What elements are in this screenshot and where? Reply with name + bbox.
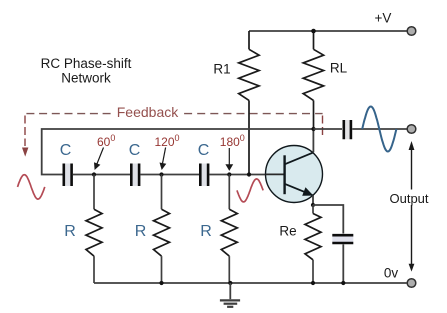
capacitor Cout [344,120,351,139]
feedback arrow [22,148,28,157]
wire C1 to node A [73,174,130,176]
svg-text:R: R [64,223,76,240]
wire bottom rail [94,282,407,284]
svg-text:120: 120 [155,135,175,149]
transistor Q1 [266,146,323,203]
capacitor C2 [131,164,139,187]
svg-text:RC Phase-shift: RC Phase-shift [41,56,132,71]
label RC Phase-shift Network [41,56,132,86]
ground [220,283,240,307]
label 120deg [155,133,180,149]
node rail Re [311,281,315,285]
svg-text:0: 0 [175,133,180,143]
arrow 60deg [94,148,104,171]
node collector [311,127,315,131]
resistor R third [221,175,237,284]
label 180deg [220,133,245,149]
wire collector [312,129,314,152]
resistor R1 [239,31,259,175]
wire cap to output terminal [352,128,407,130]
wire emitter [312,196,314,206]
svg-text:0v: 0v [384,266,399,281]
sine input red [18,175,45,199]
node rail bypass [341,281,345,285]
node RL top [311,29,316,34]
wire emitter to bypass cap [313,205,343,234]
node C 180deg [227,172,231,176]
svg-text:+V: +V [375,11,392,26]
svg-text:R1: R1 [213,62,230,77]
svg-text:RL: RL [330,61,348,76]
svg-text:0: 0 [110,133,115,143]
wire bypass cap to rail [342,244,344,283]
capacitor C3 [200,164,208,187]
svg-text:Re: Re [279,224,296,239]
node emitter [311,203,315,207]
svg-text:R: R [200,223,212,240]
capacitor C1 [64,164,72,187]
resistor Re [305,205,321,283]
node rail R2 [159,281,163,285]
node B 120deg [159,172,163,176]
svg-text:C: C [198,142,210,159]
capacitor Ce bypass [332,235,353,243]
svg-text:Network: Network [61,71,111,86]
arrow output span [409,141,415,272]
node A 60deg [92,172,96,176]
svg-text:180: 180 [220,135,240,149]
terminal 0v [407,279,416,288]
terminal output [407,125,416,134]
wire C2 to node B [140,174,199,176]
wire top rail [249,30,407,32]
sine output blue [362,107,396,152]
sine base red [237,179,263,202]
node rail ground [228,281,232,285]
label Output [388,190,432,207]
svg-text:Feedback: Feedback [117,104,179,120]
svg-text:C: C [60,142,72,159]
wire feedback collector line [42,129,314,175]
terminal +V [407,27,416,36]
arrow 120deg [160,148,167,171]
svg-text:60: 60 [97,135,111,149]
node R1 base junction [247,172,251,176]
resistor R second [154,175,170,284]
svg-text:R: R [135,223,147,240]
resistor R first [86,175,102,284]
svg-text:0: 0 [240,133,245,143]
arrow 180deg [225,148,233,171]
svg-text:C: C [129,142,141,159]
svg-text:Output: Output [389,191,428,206]
wire output line [314,128,343,130]
label 60deg [97,133,115,149]
wire C3 to base [209,174,284,176]
resistor RL [303,31,323,129]
feedback dashed line [25,114,323,146]
